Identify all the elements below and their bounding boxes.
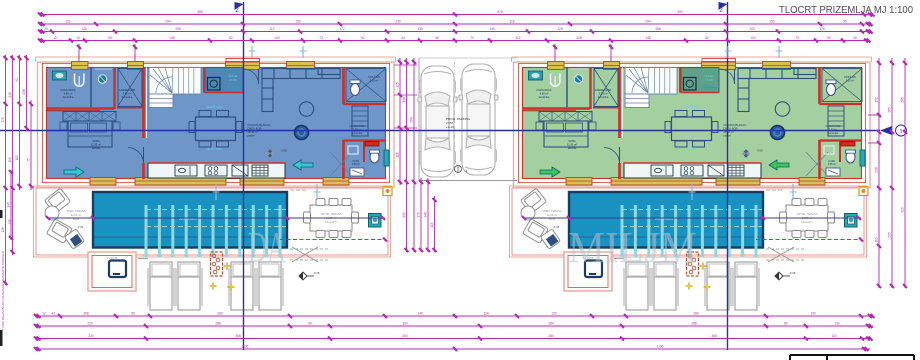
- svg-text:100: 100: [750, 36, 756, 40]
- svg-text:43: 43: [51, 312, 55, 316]
- svg-text:110: 110: [15, 155, 19, 160]
- svg-text:205: 205: [888, 232, 892, 238]
- svg-text:68: 68: [435, 36, 439, 40]
- svg-text:80: 80: [784, 322, 788, 326]
- svg-text:255: 255: [175, 27, 181, 31]
- svg-text:128: 128: [576, 36, 582, 40]
- svg-text:135: 135: [417, 27, 423, 31]
- svg-text:125: 125: [81, 27, 87, 31]
- svg-text:385: 385: [197, 10, 203, 14]
- svg-text:25: 25: [44, 27, 48, 31]
- svg-text:92: 92: [361, 36, 365, 40]
- svg-text:145: 145: [489, 27, 495, 31]
- svg-text:100: 100: [274, 36, 280, 40]
- svg-text:DA: DA: [248, 223, 286, 272]
- svg-text:118: 118: [396, 152, 400, 157]
- svg-text:1130: 1130: [657, 345, 664, 349]
- svg-text:148: 148: [645, 36, 651, 40]
- svg-text:178: 178: [819, 27, 825, 31]
- svg-text:118: 118: [509, 20, 514, 24]
- svg-text:110: 110: [875, 237, 879, 242]
- svg-text:148: 148: [402, 97, 406, 103]
- svg-text:64: 64: [401, 36, 405, 40]
- svg-text:120: 120: [65, 20, 71, 24]
- svg-text:170: 170: [1, 117, 5, 123]
- svg-text:294: 294: [165, 20, 171, 24]
- svg-text:92: 92: [15, 78, 19, 82]
- svg-text:268: 268: [655, 27, 661, 31]
- svg-text:280: 280: [217, 312, 223, 316]
- svg-text:82: 82: [705, 36, 709, 40]
- svg-text:300: 300: [402, 322, 408, 326]
- svg-text:112: 112: [515, 36, 520, 40]
- svg-text:320: 320: [901, 207, 905, 213]
- svg-text:130: 130: [834, 322, 840, 326]
- svg-text:98: 98: [108, 36, 112, 40]
- svg-text:65: 65: [131, 312, 135, 316]
- svg-text:298: 298: [83, 312, 89, 316]
- svg-text:-1: -1: [465, 169, 468, 173]
- svg-text:288: 288: [691, 322, 697, 326]
- svg-text:190: 190: [810, 312, 816, 316]
- svg-text:150: 150: [295, 20, 301, 24]
- svg-text:115: 115: [430, 222, 434, 227]
- svg-text:10: 10: [76, 36, 80, 40]
- svg-text:73: 73: [319, 36, 323, 40]
- svg-text:288: 288: [215, 322, 221, 326]
- svg-text:TLOCRT PRIZEMLJA MJ 1:100: TLOCRT PRIZEMLJA MJ 1:100: [779, 4, 913, 16]
- svg-text:284: 284: [548, 322, 554, 326]
- svg-text:80: 80: [308, 322, 312, 326]
- svg-text:73: 73: [795, 36, 799, 40]
- svg-text:12: 12: [53, 36, 57, 40]
- svg-text:110: 110: [831, 334, 836, 338]
- svg-text:265: 265: [888, 107, 892, 113]
- svg-text:75: 75: [27, 158, 31, 162]
- svg-text:878: 878: [497, 10, 503, 14]
- svg-text:140: 140: [7, 202, 11, 208]
- svg-text:220: 220: [87, 322, 93, 326]
- svg-text:12: 12: [42, 312, 46, 316]
- svg-text:284: 284: [548, 334, 554, 338]
- svg-text:250: 250: [410, 117, 414, 123]
- svg-text:150: 150: [402, 212, 406, 218]
- svg-text:125: 125: [557, 27, 563, 31]
- svg-text:103: 103: [749, 27, 755, 31]
- svg-text:152: 152: [875, 97, 879, 103]
- svg-text:+0.40: +0.40: [446, 125, 454, 129]
- svg-text:265: 265: [901, 97, 905, 103]
- svg-text:280: 280: [693, 312, 699, 316]
- svg-text:230: 230: [395, 20, 401, 24]
- svg-text:294: 294: [645, 20, 651, 24]
- svg-text:300: 300: [402, 334, 408, 338]
- svg-text:220: 220: [88, 334, 94, 338]
- svg-text:70: 70: [470, 36, 474, 40]
- svg-text:238: 238: [875, 167, 879, 173]
- svg-text:238: 238: [22, 89, 26, 95]
- svg-text:368: 368: [711, 334, 717, 338]
- svg-text:MILJM: MILJM: [568, 223, 697, 272]
- svg-text:124: 124: [483, 312, 489, 316]
- svg-text:148: 148: [8, 92, 12, 98]
- svg-text:45: 45: [853, 36, 857, 40]
- svg-text:170: 170: [417, 212, 421, 218]
- svg-text:1: 1: [900, 129, 903, 135]
- svg-text:390: 390: [677, 10, 683, 14]
- svg-text:368: 368: [235, 334, 241, 338]
- svg-text:140: 140: [417, 312, 423, 316]
- svg-text:115: 115: [8, 157, 12, 162]
- svg-text:TVRDI OGRADNI ZID NA GRANICI S: TVRDI OGRADNI ZID NA GRANICI SUSJEDNE PA…: [1, 251, 5, 330]
- svg-text:128: 128: [1, 227, 5, 233]
- svg-text:148: 148: [424, 212, 428, 218]
- svg-text:148: 148: [169, 36, 175, 40]
- svg-text:1130: 1130: [242, 345, 249, 349]
- svg-text:112: 112: [269, 27, 274, 31]
- svg-text:82: 82: [229, 36, 233, 40]
- svg-text:172: 172: [339, 27, 345, 31]
- svg-text:150: 150: [551, 312, 557, 316]
- svg-text:150: 150: [769, 20, 775, 24]
- svg-text:95: 95: [843, 20, 847, 24]
- svg-text:52: 52: [827, 36, 831, 40]
- svg-text:125: 125: [396, 82, 400, 88]
